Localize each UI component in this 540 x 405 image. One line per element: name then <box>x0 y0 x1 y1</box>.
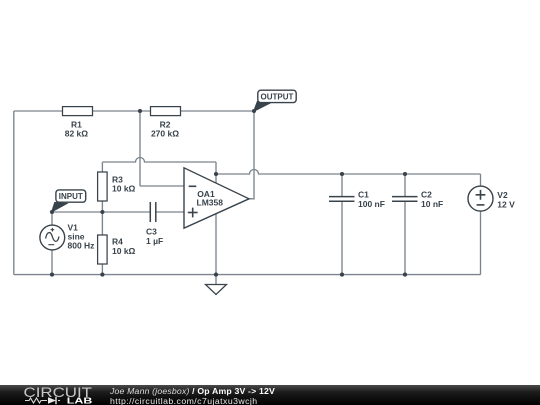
wire C3 to non-inverting input <box>156 211 184 213</box>
source V2 <box>468 186 493 211</box>
node R1-R2-feedback junction <box>138 109 142 113</box>
wire V2 bottom lead <box>480 211 482 275</box>
resistor R4 <box>98 235 108 264</box>
node ground junction <box>214 273 218 277</box>
wire V2 top lead <box>480 174 482 186</box>
wire C1 top lead <box>341 174 343 196</box>
wire R1 to R2 <box>93 110 151 112</box>
wire R4 bottom lead <box>101 264 103 275</box>
svg-text:LM358: LM358 <box>197 198 224 208</box>
wire C1 bottom lead <box>341 202 343 275</box>
svg-text:V2: V2 <box>497 190 508 200</box>
node V1 bottom <box>50 273 54 277</box>
node V+ rail tap <box>214 172 218 176</box>
node C2 top <box>403 172 407 176</box>
wire C2 bottom lead <box>404 202 406 275</box>
resistor R3 <box>98 172 108 201</box>
flag INPUT <box>52 190 86 212</box>
capacitor C2 <box>392 197 418 202</box>
node C1 top <box>340 172 344 176</box>
wire left rail <box>13 111 15 275</box>
wire op-amp V- pin to bottom rail <box>215 214 217 275</box>
op-amp U1 triangle <box>184 168 249 228</box>
svg-text:10 nF: 10 nF <box>421 199 443 209</box>
source V1 <box>40 225 65 250</box>
svg-text:C3: C3 <box>146 226 157 236</box>
svg-text:10 kΩ: 10 kΩ <box>112 184 136 194</box>
node C2 bottom <box>403 273 407 277</box>
svg-text:82 kΩ: 82 kΩ <box>65 129 89 139</box>
wire op-amp V+ pin stub <box>215 174 217 184</box>
ground <box>206 285 227 295</box>
node R3-R4 junction <box>100 210 104 214</box>
svg-text:10 kΩ: 10 kΩ <box>112 246 136 256</box>
wire V+ corner down <box>215 162 217 174</box>
CircuitLab logo <box>0 385 100 405</box>
capacitor C1 <box>329 197 355 202</box>
wire R3 top to V+ corner with hop <box>102 158 216 163</box>
wire C2 top lead <box>404 174 406 196</box>
svg-text:12 V: 12 V <box>497 200 515 210</box>
wire feedback vertical <box>139 111 141 186</box>
wire R4 top lead <box>101 212 103 235</box>
node output junction <box>252 109 256 113</box>
svg-text:100 nF: 100 nF <box>358 199 385 209</box>
wire to inverting input <box>140 185 184 187</box>
wire V+ rail with hop over output <box>216 170 481 175</box>
svg-text:1 µF: 1 µF <box>146 236 163 246</box>
svg-text:INPUT: INPUT <box>59 192 83 201</box>
footer credit text <box>110 386 275 405</box>
svg-text:LAB: LAB <box>67 395 93 405</box>
wire bottom rail <box>14 274 481 276</box>
wire ground stub <box>215 275 217 285</box>
svg-text:270 kΩ: 270 kΩ <box>151 129 179 139</box>
wire output vertical <box>249 111 254 199</box>
svg-text:C2: C2 <box>421 190 432 200</box>
wire input node to C3 <box>52 211 150 213</box>
node C1 bottom <box>340 273 344 277</box>
resistor R1 <box>63 107 93 116</box>
wire top-left to R1 <box>14 110 63 112</box>
svg-text:C1: C1 <box>358 190 369 200</box>
footer bar <box>0 385 540 405</box>
node input <box>50 210 54 214</box>
resistor R2 <box>151 107 181 116</box>
svg-text:OUTPUT: OUTPUT <box>261 93 294 102</box>
flag OUTPUT <box>254 90 297 111</box>
wire V1 bottom lead <box>51 250 53 275</box>
wire V1 top lead <box>51 212 53 225</box>
wire R2 to output node <box>181 110 255 112</box>
wire R3 top stub <box>101 162 103 172</box>
wire R3 bottom lead <box>101 201 103 212</box>
op-amp plus mark <box>188 208 198 218</box>
svg-text:800 Hz: 800 Hz <box>68 240 95 250</box>
op-amp minus mark <box>189 185 197 187</box>
capacitor C3 <box>150 202 156 222</box>
node R4 bottom <box>100 273 104 277</box>
